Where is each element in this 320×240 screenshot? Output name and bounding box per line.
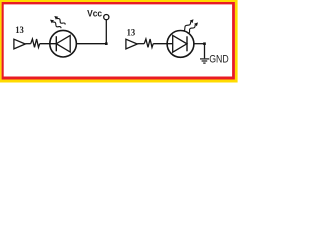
wire gate U2 output to resistor R2 [137, 43, 144, 45]
wire down to ground symbol [204, 44, 206, 59]
Vcc terminal circle [104, 15, 109, 20]
LED D1 emission arrow 2 [54, 16, 65, 25]
wire LED D2 cathode to GND corner [194, 43, 205, 45]
buffer gate U1 (left) [14, 39, 25, 49]
LED D1 cathode bar [55, 36, 57, 51]
wire gate U1 output to resistor R1 [25, 43, 30, 45]
svg-text:13: 13 [127, 29, 136, 39]
wire riser to Vcc terminal [105, 17, 107, 44]
ground symbol [200, 59, 209, 63]
LED D2 circle [167, 31, 194, 58]
resistor R1 [31, 39, 40, 47]
svg-text:Vcc: Vcc [87, 7, 102, 18]
LED D1 emission arrow 1 [50, 20, 61, 29]
LED D1 circle [50, 30, 77, 57]
resistor R2 [144, 39, 153, 47]
LED D2 emission arrow 2 [188, 22, 198, 33]
LED D2 cathode bar [186, 36, 188, 51]
LED D2 emission arrow 1 [183, 19, 194, 31]
wire resistor R1 to LED D1 cathode [40, 43, 57, 45]
LED D2 diode triangle [173, 35, 187, 52]
junction dot at GND corner [203, 42, 206, 45]
svg-text:13: 13 [15, 26, 24, 36]
junction dot at Vcc corner [105, 42, 108, 45]
buffer gate U2 (right) [126, 39, 137, 49]
LED D1 diode triangle [56, 35, 70, 52]
wire resistor R2 to LED D2 anode [153, 43, 173, 45]
svg-text:GND: GND [209, 53, 229, 65]
wire LED D1 anode to Vcc riser [76, 43, 106, 45]
